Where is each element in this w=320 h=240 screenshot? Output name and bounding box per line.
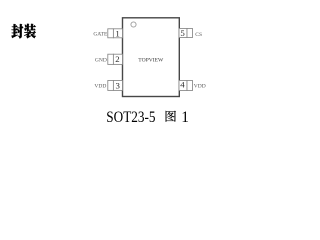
svg-text:2: 2 <box>115 54 119 64</box>
svg-text:CS: CS <box>195 32 202 38</box>
svg-text:GATE: GATE <box>93 31 108 37</box>
svg-text:4: 4 <box>180 80 185 90</box>
svg-text:5: 5 <box>180 28 185 38</box>
svg-text:GND: GND <box>95 57 107 63</box>
svg-text:TOPVIEW: TOPVIEW <box>138 57 164 63</box>
svg-text:1: 1 <box>181 109 189 126</box>
svg-text:VDD: VDD <box>194 84 206 90</box>
svg-text:3: 3 <box>115 80 120 90</box>
svg-text:SOT23-5: SOT23-5 <box>106 109 155 126</box>
svg-text:VDD: VDD <box>94 84 106 90</box>
svg-text:1: 1 <box>115 29 119 39</box>
